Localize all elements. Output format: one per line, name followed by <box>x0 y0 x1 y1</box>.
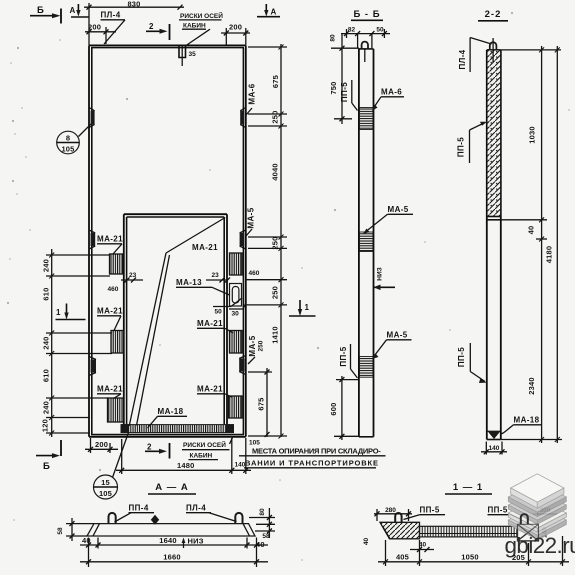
svg-text:МА-21: МА-21 <box>97 307 123 316</box>
section mark A top right <box>257 4 280 17</box>
svg-text:МА-21: МА-21 <box>192 243 218 252</box>
label MA-5 right edge upper <box>246 207 256 236</box>
label PL-4 top <box>101 11 126 45</box>
label PL-4 <box>186 504 237 522</box>
svg-text:1640: 1640 <box>159 536 177 545</box>
svg-text:105: 105 <box>99 489 112 498</box>
embed MA-21 left post bottom <box>108 398 124 422</box>
label MA-5 low <box>372 331 412 360</box>
edge embed MA-5 left lower <box>89 357 96 376</box>
svg-text:2340: 2340 <box>527 377 536 395</box>
left dimension chain 240/610/240/610/240/120 <box>41 249 113 437</box>
door opening <box>124 214 227 425</box>
label MA-21 left middle <box>97 307 123 331</box>
lifting loop PL-4 right <box>235 513 242 524</box>
dim 200 bottom left <box>85 438 118 453</box>
panel outline <box>89 45 246 436</box>
svg-text:750: 750 <box>329 81 338 94</box>
svg-text:58: 58 <box>262 533 270 540</box>
embed band MA-5 low <box>360 357 373 378</box>
leader diagonals inside opening <box>129 218 225 427</box>
svg-text:460: 460 <box>249 270 260 277</box>
svg-text:1: 1 <box>305 303 310 312</box>
svg-text:250: 250 <box>271 286 280 299</box>
svg-text:50: 50 <box>376 27 384 34</box>
lifting loop PP-5 left <box>395 513 401 522</box>
section mark 2 top <box>146 22 170 40</box>
svg-text:Б: Б <box>43 461 51 472</box>
niz mark <box>374 267 396 290</box>
top center axis notch <box>179 46 196 67</box>
label PP-5 upper <box>340 80 358 111</box>
svg-text:240: 240 <box>42 336 51 349</box>
dim 600 <box>329 376 359 440</box>
svg-text:200: 200 <box>95 440 108 449</box>
svg-text:4040: 4040 <box>271 163 280 181</box>
dim line 40/1640/40 <box>80 536 268 567</box>
embed MA-21 right post bottom <box>229 396 243 418</box>
label riski osey kabin bottom <box>182 438 233 460</box>
right end dims 80 / 58 <box>249 508 275 540</box>
embed band MA-5 mid <box>360 232 373 252</box>
label MA-21 opening middle <box>197 319 233 333</box>
top lifting loop <box>362 42 368 62</box>
label PP-5 lower <box>339 344 358 378</box>
svg-text:ПП-5: ПП-5 <box>457 347 466 367</box>
svg-text:35: 35 <box>189 51 197 58</box>
svg-text:МА-21: МА-21 <box>97 235 123 244</box>
logo slab 3 <box>508 490 566 524</box>
section mark 1 right <box>289 300 316 316</box>
svg-text:МА-21: МА-21 <box>197 385 223 394</box>
label PP-5 lower <box>457 343 487 383</box>
label MA-21 left bottom <box>97 385 123 399</box>
dim 300 right <box>533 507 557 514</box>
bar outline <box>359 49 374 437</box>
title A-A <box>148 482 196 494</box>
label MA-13 <box>176 278 230 295</box>
section mark 2 bottom <box>145 443 170 459</box>
svg-text:675: 675 <box>271 75 280 88</box>
svg-text:405: 405 <box>396 553 409 562</box>
dim 280 <box>374 507 412 521</box>
svg-text:gbi22.ru: gbi22.ru <box>505 533 575 558</box>
label MA-18 <box>148 407 188 428</box>
thin slab bar <box>420 526 518 537</box>
svg-text:460: 460 <box>108 286 119 293</box>
svg-text:1410: 1410 <box>271 326 280 344</box>
svg-text:80: 80 <box>330 34 337 42</box>
section mark A top left <box>70 4 89 17</box>
svg-text:ПЛ-4: ПЛ-4 <box>458 49 467 69</box>
label PP-4 <box>115 504 155 523</box>
title 1-1 <box>445 482 492 494</box>
top annotations <box>30 0 280 46</box>
svg-text:А — А: А — А <box>155 482 189 493</box>
svg-text:280: 280 <box>385 507 396 514</box>
svg-text:ПЛ-4: ПЛ-4 <box>186 504 206 513</box>
MA-18 sill strip at opening bottom <box>121 424 234 433</box>
svg-text:ПП-5: ПП-5 <box>339 346 348 366</box>
bottom dim line 405/1050/205 <box>378 536 569 566</box>
svg-text:МА-5: МА-5 <box>248 335 257 356</box>
svg-text:8: 8 <box>66 134 70 143</box>
dim 40 at bar start <box>410 542 434 553</box>
bar outline <box>487 50 501 440</box>
logo slab 4 <box>508 498 566 532</box>
svg-text:82: 82 <box>348 27 356 34</box>
svg-text:РИСКИ ОСЕЙ: РИСКИ ОСЕЙ <box>183 440 226 449</box>
svg-text:2: 2 <box>147 443 152 452</box>
inner dim 675 lower right <box>248 368 272 437</box>
label MA-6 right edge <box>246 83 257 115</box>
svg-text:58: 58 <box>57 527 64 535</box>
svg-text:2-2: 2-2 <box>485 9 502 20</box>
dim line 1480 and 140 <box>116 438 251 474</box>
svg-text:МА-6: МА-6 <box>381 88 402 97</box>
svg-text:Б: Б <box>37 5 45 16</box>
svg-text:1480: 1480 <box>177 461 195 470</box>
section mark B top left <box>30 5 61 24</box>
left end dim 58 <box>57 518 94 541</box>
svg-text:НИЗ: НИЗ <box>188 537 204 546</box>
left end thickened part <box>380 522 420 539</box>
section mark B bottom left <box>36 440 61 472</box>
logo slab 1 top <box>511 474 564 508</box>
main elevation view of wall panel <box>41 44 316 499</box>
svg-text:2: 2 <box>149 22 154 31</box>
section 1-1 <box>363 482 569 566</box>
lifting loop PP-5 right <box>521 514 528 524</box>
svg-text:ПЛ-4: ПЛ-4 <box>101 11 121 20</box>
svg-text:675: 675 <box>257 397 266 410</box>
label MA-18 <box>502 416 542 434</box>
title 2-2 <box>478 9 508 21</box>
right end block with cross <box>518 524 539 541</box>
label MA-5 right edge lower with 250 <box>248 335 265 364</box>
svg-text:КАБИН: КАБИН <box>190 452 213 459</box>
embed MA-21 right post middle <box>230 331 243 354</box>
svg-text:ПП-5: ПП-5 <box>420 506 440 515</box>
label riski osey kabin top <box>179 11 223 46</box>
title B-B <box>351 9 383 20</box>
svg-text:А: А <box>70 6 76 15</box>
svg-text:50: 50 <box>215 309 223 316</box>
svg-text:ПП-5: ПП-5 <box>340 82 349 102</box>
svg-text:КАБИН: КАБИН <box>183 22 206 29</box>
section 2-2 <box>457 9 563 455</box>
label PL-4 <box>458 38 492 73</box>
top dim 830 to axis <box>84 0 184 45</box>
bottom annotations of main view <box>36 438 386 475</box>
svg-text:240: 240 <box>42 259 51 272</box>
svg-text:А: А <box>271 8 277 17</box>
svg-text:НИЗ: НИЗ <box>377 267 384 280</box>
svg-text:МА-13: МА-13 <box>176 278 202 287</box>
svg-text:40: 40 <box>363 538 370 546</box>
right dimension chain 675/250/4040/250/250/1410 <box>246 44 287 439</box>
bottom V embed MA-18 <box>487 431 501 439</box>
svg-text:120: 120 <box>41 419 50 432</box>
embed band MA-6 <box>360 108 373 130</box>
logo slab 2 <box>508 482 566 517</box>
label MA-21 left top <box>97 235 123 255</box>
dim 750 vertical <box>329 34 359 124</box>
note mesta opiraniya <box>239 447 386 468</box>
watermark logo gbi22.ru <box>505 474 575 558</box>
edge embed MA-6 right <box>240 108 246 128</box>
svg-text:РИСКИ ОСЕЙ: РИСКИ ОСЕЙ <box>180 11 223 20</box>
embed MA-21 left post middle <box>111 331 124 354</box>
svg-text:ВАНИИ И ТРАНСПОРТИРОВКЕ: ВАНИИ И ТРАНСПОРТИРОВКЕ <box>245 458 379 467</box>
svg-text:МЕСТА ОПИРАНИЯ ПРИ СКЛАДИРО-: МЕСТА ОПИРАНИЯ ПРИ СКЛАДИРО- <box>252 447 381 456</box>
svg-text:1030: 1030 <box>528 126 537 144</box>
svg-text:ПП-5: ПП-5 <box>488 506 508 515</box>
svg-text:МА-18: МА-18 <box>514 416 540 425</box>
svg-text:1: 1 <box>56 308 61 317</box>
dim line 1660 <box>80 553 268 565</box>
detail circle 15-105 <box>94 433 129 500</box>
svg-text:4180: 4180 <box>545 246 554 264</box>
svg-text:ПП-5: ПП-5 <box>457 137 466 157</box>
logo slab 5 <box>508 505 566 540</box>
hatched mortar zone <box>487 51 501 220</box>
dim 30 <box>229 304 246 318</box>
label MA-21 opening bottom <box>197 385 232 398</box>
svg-text:ПП-4: ПП-4 <box>129 504 149 513</box>
detail circle 8-105 <box>57 124 91 154</box>
svg-text:240: 240 <box>42 401 51 414</box>
embed MA-21 left post top <box>110 254 123 274</box>
svg-text:30: 30 <box>232 311 240 318</box>
top dims 82 50 80 <box>330 27 391 49</box>
center diamond mark <box>151 515 159 525</box>
edge embed MA-5 right upper <box>240 230 246 249</box>
svg-text:140: 140 <box>489 445 500 452</box>
label PP-5 upper <box>457 122 487 163</box>
svg-text:15: 15 <box>101 478 110 487</box>
svg-text:МА-18: МА-18 <box>158 407 184 416</box>
svg-text:40: 40 <box>256 540 265 549</box>
edge embed MA-5 left upper <box>89 230 95 249</box>
svg-text:1050: 1050 <box>461 553 479 562</box>
dim 23 left <box>121 272 143 283</box>
svg-text:250: 250 <box>271 236 280 249</box>
svg-text:МА-21: МА-21 <box>197 319 223 328</box>
svg-text:610: 610 <box>42 369 51 382</box>
edge embed MA-5 right lower <box>239 356 246 375</box>
svg-text:МА-21: МА-21 <box>97 385 123 394</box>
svg-text:610: 610 <box>42 287 51 300</box>
dim 140 bottom <box>481 442 507 455</box>
svg-text:105: 105 <box>249 440 260 447</box>
label PP-5 left <box>404 506 446 520</box>
svg-text:Б - Б: Б - Б <box>353 9 380 20</box>
label MA-5 mid <box>363 205 413 234</box>
section A-A <box>57 482 275 567</box>
svg-text:1660: 1660 <box>163 553 181 562</box>
svg-text:23: 23 <box>212 272 220 279</box>
svg-text:МА-5: МА-5 <box>387 331 408 340</box>
svg-text:250: 250 <box>271 110 280 123</box>
dim 200 top left <box>85 23 116 45</box>
label MA-6 <box>372 88 404 112</box>
svg-text:МА-5: МА-5 <box>388 205 409 214</box>
svg-text:600: 600 <box>329 402 338 415</box>
svg-text:250: 250 <box>258 340 265 351</box>
dim 50 <box>213 298 242 316</box>
slab outline <box>87 524 255 536</box>
edge embed MA-6 left <box>89 108 95 128</box>
lifting loop PP-4 left <box>109 513 116 524</box>
right dim chain 1030/40/2340 and 4180 <box>501 46 562 443</box>
label PP-5 right <box>488 506 522 520</box>
overlay redraw of 1-1 right loop over watermark <box>521 514 528 524</box>
svg-text:40: 40 <box>527 226 536 235</box>
overlay redraw right block edges <box>518 524 539 541</box>
embed MA-13 right post <box>230 284 242 307</box>
dim 23 right <box>206 272 230 283</box>
top lifting loop <box>490 38 497 62</box>
svg-text:80: 80 <box>259 508 266 516</box>
svg-text:1 — 1: 1 — 1 <box>453 482 483 493</box>
svg-text:МА-6: МА-6 <box>248 83 257 104</box>
svg-text:105: 105 <box>61 145 74 154</box>
svg-text:200: 200 <box>229 23 242 32</box>
svg-text:830: 830 <box>127 0 140 9</box>
svg-text:МА-5: МА-5 <box>247 207 256 228</box>
section mark 1 left <box>56 304 86 320</box>
embed MA-21 right post top <box>230 253 243 275</box>
svg-text:40: 40 <box>82 536 91 545</box>
section B-B <box>329 9 413 440</box>
dim 200 top right <box>221 23 250 46</box>
